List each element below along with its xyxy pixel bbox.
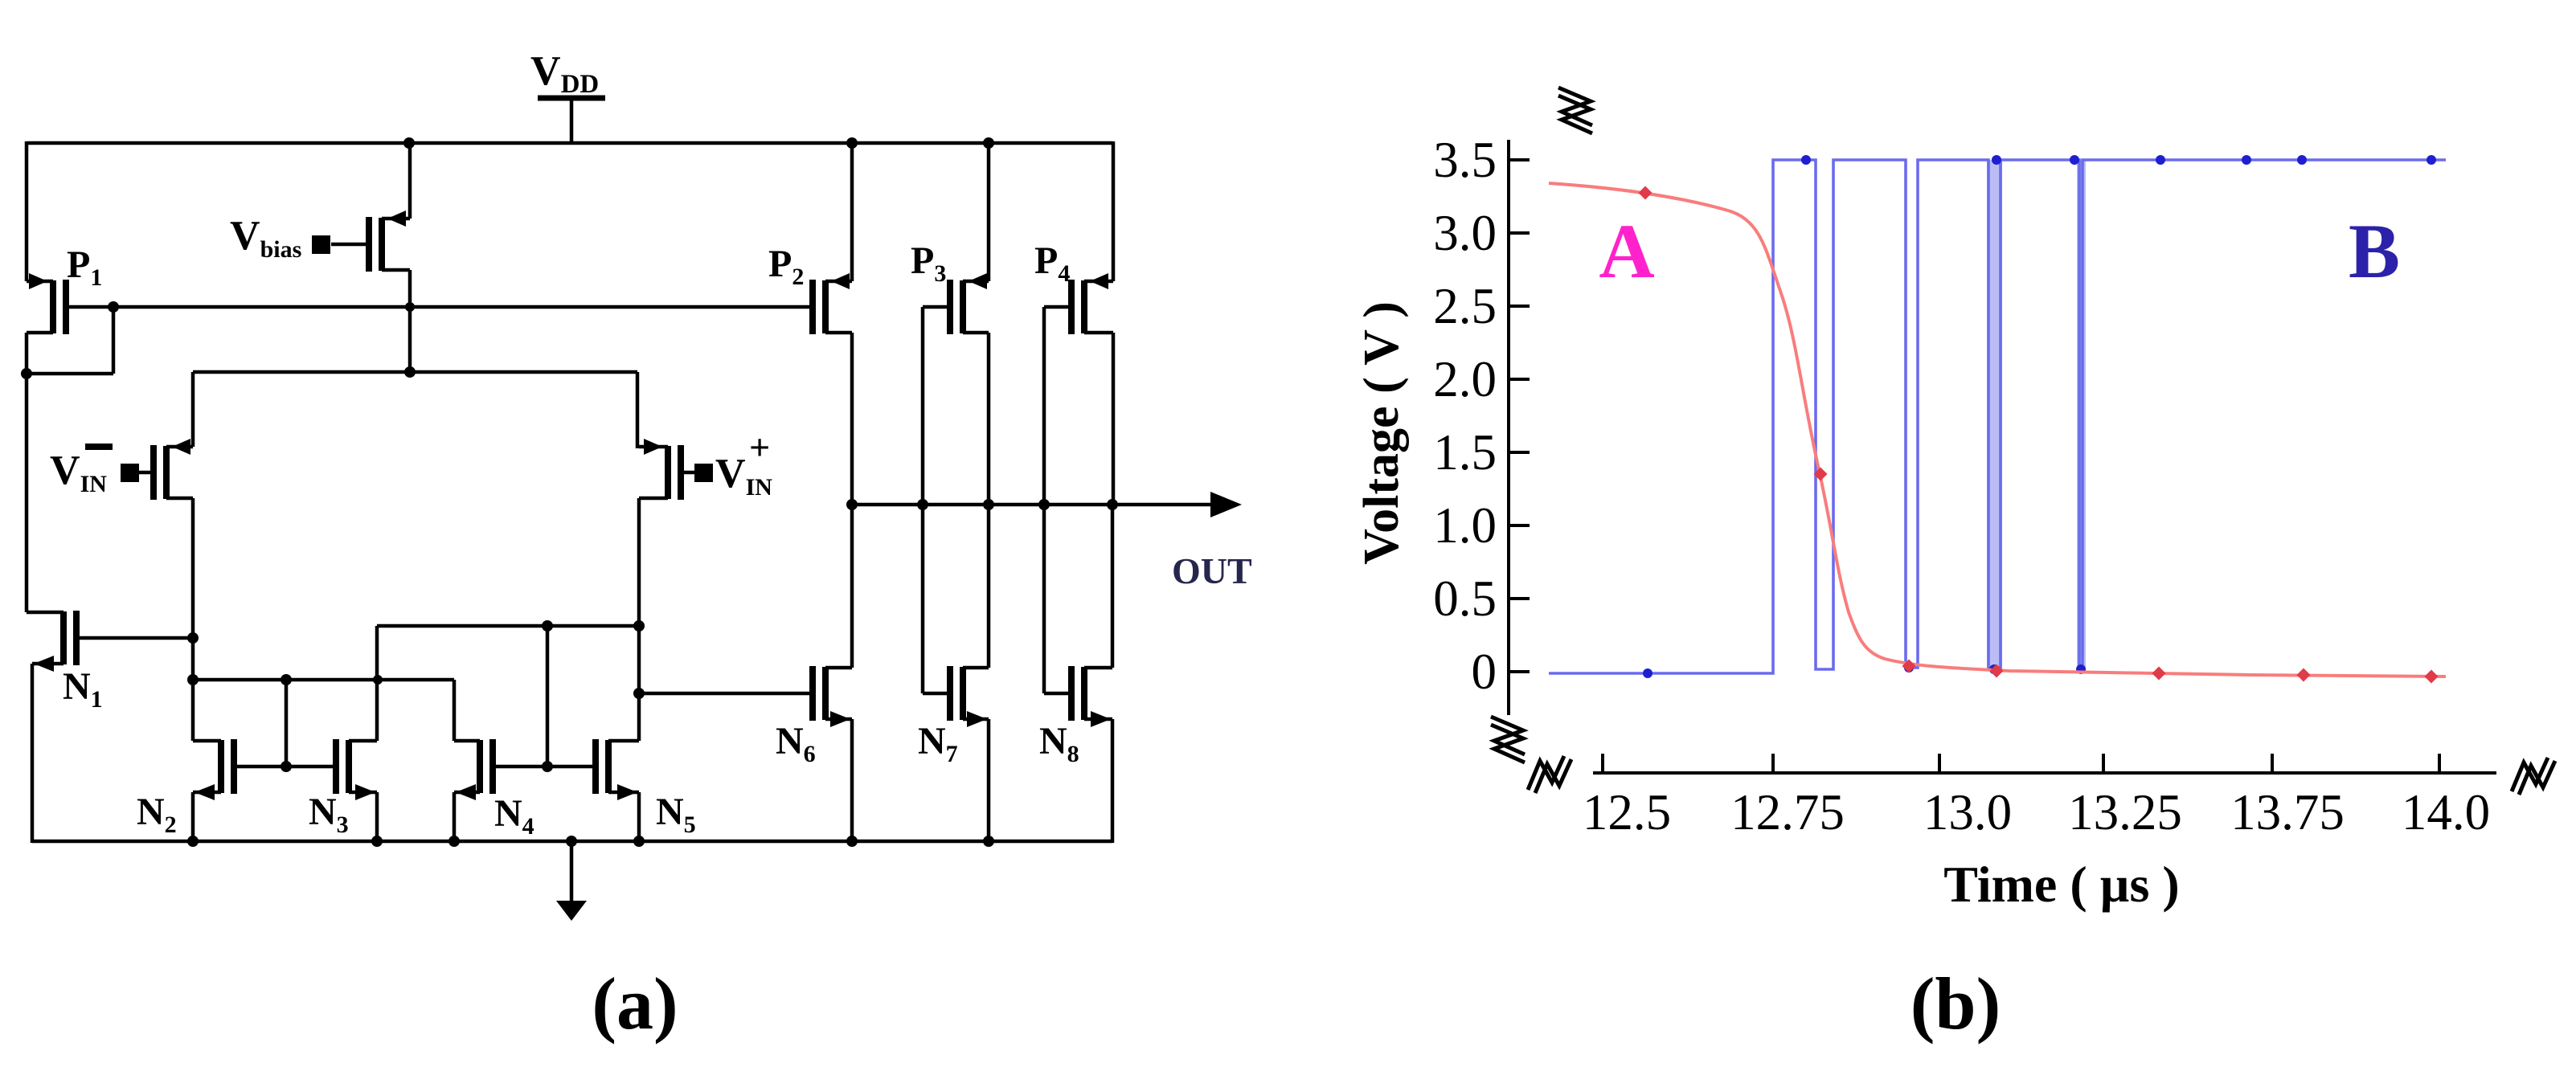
svg-text:13.25: 13.25 — [2068, 784, 2182, 840]
node Vbias drain on gate line — [405, 302, 415, 312]
svg-text:OUT: OUT — [1172, 550, 1252, 591]
node riser N4N5 top — [542, 620, 553, 632]
transistor N2 — [193, 739, 234, 800]
transistor M_VINminus — [138, 439, 193, 500]
svg-text:(b): (b) — [1910, 963, 2001, 1045]
wire P2 source stub — [850, 143, 854, 281]
svg-text:12.5: 12.5 — [1583, 784, 1671, 840]
wire bottom rail — [32, 840, 1112, 844]
svg-text:13.75: 13.75 — [2230, 784, 2345, 840]
wire left rail middle (P1 drain to N1 drain) — [25, 333, 29, 612]
axis break left of x-axis — [1528, 756, 1564, 790]
wire N6 source stub — [850, 719, 854, 841]
chart y tick 2.5 — [1509, 305, 1530, 308]
wire riser to N4 N5 gates — [546, 626, 550, 767]
svg-text:2.5: 2.5 — [1433, 278, 1497, 334]
wire P4 drain to OUT — [1112, 333, 1116, 505]
wire N7 source stub — [987, 719, 991, 841]
axis break top of y-axis — [1558, 88, 1592, 125]
marker B point 2864 — [2297, 155, 2307, 165]
curve B spike halo — [2077, 160, 2086, 671]
chart y-axis — [1507, 140, 1510, 715]
marker B point 2581 — [2070, 155, 2079, 165]
node OUT P2 N6 drains — [846, 499, 858, 510]
node OUT P4 N8 gates — [1038, 499, 1050, 510]
wire differential pair tail line — [193, 370, 637, 374]
chart y tick 0.0 — [1509, 670, 1530, 673]
wire N3 source stub — [375, 792, 379, 841]
node OUT P3 N7 gates — [917, 499, 928, 510]
ground — [556, 841, 587, 921]
node bottom rail N5 source — [633, 836, 645, 847]
wire N8 source stub — [1111, 719, 1115, 843]
terminal VIN- square — [121, 464, 139, 482]
wire N5 source stub — [637, 792, 641, 841]
marker A point 2686 — [2152, 667, 2166, 681]
wire P1 gate-drain tie horizontal — [27, 372, 113, 376]
svg-text:3.0: 3.0 — [1433, 205, 1497, 261]
chart x tick 13.0 — [1938, 754, 1941, 773]
node line A left — [187, 674, 199, 685]
node VIN+ drain junction — [633, 620, 645, 632]
terminal Vbias square — [312, 235, 330, 254]
marker A point 2484 — [1990, 664, 2004, 678]
wire N6 drain to OUT — [850, 505, 854, 668]
wire P1 gate-drain tie riser — [112, 307, 116, 374]
axis break right of x-axis — [2512, 758, 2548, 791]
svg-text:0.5: 0.5 — [1433, 570, 1497, 627]
wire riser to N2 N3 gates — [285, 680, 289, 767]
node bottom rail N6 source — [846, 836, 858, 847]
wire N4 source stub — [453, 792, 457, 841]
node OUT P3 N7 drains — [983, 499, 994, 510]
wire VDD top rail — [27, 141, 1113, 145]
node bottom rail N3 source — [371, 836, 383, 847]
chart x-axis — [1593, 771, 2496, 775]
chart x tick 12.75 — [1771, 754, 1775, 773]
chart y tick 1.5 — [1509, 451, 1530, 454]
chart x tick 14.0 — [2438, 754, 2441, 773]
wire Vbias drain stub — [408, 270, 412, 372]
wire P3 N7 gate riser — [921, 307, 925, 693]
VDD power symbol — [538, 98, 605, 143]
marker B point 2484 — [1992, 155, 2001, 165]
marker B point 2050 — [1643, 668, 1652, 678]
transistor P2 — [813, 273, 852, 334]
transistor P1 — [27, 273, 66, 334]
node OUT P4 N8 drains — [1107, 499, 1118, 510]
svg-text:3.5: 3.5 — [1433, 132, 1497, 188]
transistor P3 — [923, 273, 989, 334]
wire Vbias source stub — [408, 143, 412, 219]
svg-text:(a): (a) — [592, 963, 678, 1045]
node N3 drain crossing — [373, 675, 383, 685]
terminal VIN+ square — [694, 464, 713, 482]
svg-text:13.0: 13.0 — [1923, 784, 2012, 840]
transistor N1 — [27, 611, 76, 672]
marker A point 2265 — [1814, 468, 1828, 481]
wire P2 drain to OUT — [850, 333, 854, 505]
node bottom rail N4 source — [448, 836, 460, 847]
transistor M_VINplus — [639, 439, 681, 500]
wire P4 N8 gate riser — [1042, 307, 1046, 693]
svg-text:2.0: 2.0 — [1433, 351, 1497, 407]
wire N3 drain vertical — [375, 626, 379, 741]
chart y tick 3.5 — [1509, 158, 1530, 161]
transistor N3 — [336, 739, 377, 800]
marker B point 3025 — [2427, 155, 2436, 165]
transistor N5 — [596, 739, 639, 800]
axis break bottom of y-axis — [1491, 717, 1525, 754]
marker A point 2047 — [1639, 186, 1652, 200]
node bottom rail ground stem — [566, 836, 577, 847]
transistor N8 — [1044, 666, 1112, 727]
chart y tick 1.0 — [1509, 524, 1530, 527]
marker B point 2375 — [1904, 663, 1914, 672]
wire left rail upper — [25, 141, 29, 281]
arrow OUT head — [1210, 492, 1242, 517]
wire N2 source stub — [191, 792, 195, 841]
transistor N7 — [923, 666, 989, 727]
node bottom rail N7 source — [983, 836, 994, 847]
transistor N4 — [454, 739, 493, 800]
marker A point 2866 — [2297, 668, 2311, 682]
node N1 gate junction — [187, 632, 199, 644]
wire P3 drain to OUT — [987, 333, 991, 505]
node Vbias drain on tail line — [404, 366, 416, 378]
wire VIN+ gate lead — [681, 471, 696, 475]
marker B point 2481 — [1989, 664, 1999, 674]
wire OUT line — [852, 503, 1215, 507]
svg-text:Voltage ( V ): Voltage ( V ) — [1354, 301, 1409, 565]
svg-text:1.0: 1.0 — [1433, 497, 1497, 554]
curve B wide pulse halo — [1987, 160, 2002, 671]
wire N3 drain to N4 N5 gate net line — [377, 624, 639, 628]
wire P1 gate to P2 gate — [68, 305, 813, 309]
svg-text:B: B — [2349, 208, 2400, 294]
marker A point 2375 — [1902, 660, 1916, 673]
wire N4 N5 gate line — [493, 765, 596, 769]
wire P4 source stub — [1112, 141, 1116, 281]
node P3 source on rail — [983, 137, 994, 149]
node P1 drain rail — [21, 368, 32, 379]
svg-text:1.5: 1.5 — [1433, 424, 1497, 480]
marker B point 2247 — [1801, 155, 1811, 165]
chart x tick 12.5 — [1601, 754, 1604, 773]
node P2 source on rail — [846, 137, 858, 149]
node riser top — [281, 674, 292, 685]
wire VIN- drain vertical — [191, 498, 195, 741]
chart y tick 0.5 — [1509, 597, 1530, 600]
node N6 gate tap — [633, 688, 645, 699]
wire VIN+ source stub — [636, 372, 640, 448]
transistor N6 — [813, 666, 852, 727]
wire N8 drain to OUT — [1111, 505, 1115, 668]
node N2 N3 gate junction — [281, 761, 292, 772]
marker B point 2688 — [2156, 155, 2165, 165]
chart x tick 13.75 — [2271, 754, 2274, 773]
node P1 gate tie — [108, 301, 119, 313]
svg-text:+: + — [749, 427, 770, 468]
wire N1 source vertical — [31, 664, 35, 843]
transistor Mbias — [331, 211, 410, 272]
svg-text:Time ( µs ): Time ( µs ) — [1943, 856, 2179, 913]
wire line A (N2 diode net) — [193, 678, 454, 682]
node Vbias source on rail — [403, 137, 415, 149]
chart y tick 2.0 — [1509, 378, 1530, 381]
node bottom rail N2 source — [187, 836, 199, 847]
chart y tick 3.0 — [1509, 231, 1530, 235]
svg-text:12.75: 12.75 — [1730, 784, 1845, 840]
wire N7 drain to OUT — [987, 505, 991, 668]
transistor P4 — [1044, 273, 1113, 334]
marker B point 2795 — [2242, 155, 2251, 165]
svg-text:0: 0 — [1472, 644, 1497, 700]
marker A point 3025 — [2425, 670, 2439, 684]
wire VIN+ drain / N5 drain vertical — [637, 498, 641, 741]
curve A (red response) — [1549, 183, 2446, 677]
label VIN- minus bar — [85, 444, 113, 450]
marker B point 2589 — [2076, 664, 2086, 674]
wire P3 source stub — [987, 143, 991, 281]
wire N2 N3 gate line — [234, 765, 336, 769]
node N4 N5 gate junction — [542, 761, 553, 772]
svg-text:14.0: 14.0 — [2402, 784, 2490, 840]
curve B (blue square wave) — [1549, 160, 2446, 673]
wire N6 gate line — [639, 692, 813, 696]
wire N1 gate line — [73, 636, 193, 640]
wire VIN- source stub — [191, 372, 195, 447]
wire N4 drain vertical — [453, 680, 457, 741]
svg-text:A: A — [1599, 208, 1654, 294]
chart x tick 13.25 — [2102, 754, 2105, 773]
